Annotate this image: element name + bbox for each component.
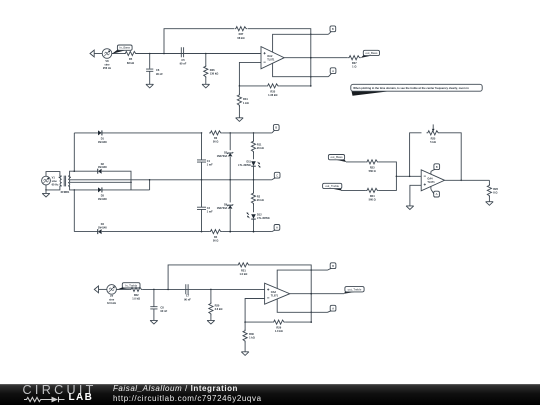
resistor R22 [130,287,143,300]
wire D1 row [74,132,98,134]
footer bar [0,384,540,405]
resistor R20 [209,289,223,320]
wire D4 to rail [102,231,209,233]
svg-text:56 Ω: 56 Ω [213,141,218,144]
svg-text:8.0 kHz: 8.0 kHz [107,301,117,305]
wire to R23 [346,161,366,163]
svg-text:1N4733A: 1N4733A [217,155,228,158]
svg-text:R36: R36 [210,68,215,72]
svg-text:R24: R24 [370,194,375,198]
zener diode D6 [217,180,233,233]
svg-text:68 kΩ: 68 kΩ [237,36,244,40]
wire R29 row [244,321,272,323]
svg-text:1.36 kΩ: 1.36 kΩ [268,93,277,97]
resistor R21 [237,263,250,276]
svg-text:1N4148: 1N4148 [98,227,107,230]
wire D1 to rail [102,132,202,134]
svg-text:1.0 kΩ: 1.0 kΩ [275,329,283,333]
CircuitLab logo LAB [69,394,94,402]
wire R29 to node [285,321,312,323]
svg-text:OA2: OA2 [267,55,273,58]
footer title [113,385,238,393]
resistor R37 [235,27,248,40]
svg-text:3.6 kΩ: 3.6 kΩ [215,307,223,311]
svg-text:60 Hz: 60 Hz [52,183,59,187]
capacitor C8 [150,289,167,320]
terminal A top ckt [328,68,336,77]
wire feedback top [164,29,234,54]
ground for C6 [146,84,154,88]
capacitor C1 [197,133,213,181]
svg-text:R21: R21 [241,268,246,272]
svg-text:26 kΩ: 26 kΩ [257,147,264,150]
svg-text:R37: R37 [239,32,244,36]
svg-text:R20: R20 [215,303,220,307]
svg-text:A: A [276,226,278,230]
resistor R23 [366,160,379,173]
svg-text:8 Ω: 8 Ω [493,190,497,194]
ground for R31 [236,118,244,122]
svg-text:256 Hz: 256 Hz [103,66,112,70]
junction to D4 [74,189,76,232]
wire OA4 plus to ground [410,185,421,206]
svg-text:V1: V1 [52,176,56,180]
svg-text:sine: sine [52,179,58,183]
diode D1 [98,130,107,144]
wire to R24 [341,189,366,191]
node out_Treble output flag [344,287,364,294]
wire R35 row [239,85,267,87]
svg-text:1N4148: 1N4148 [98,141,107,144]
wire center rail [70,179,272,181]
wire R23 to node [379,162,397,176]
voltage source V1 [42,176,59,187]
OA3 output wire [290,293,344,295]
svg-text:sine: sine [104,62,110,66]
wire D4 row [74,231,98,233]
terminal C mid [272,172,280,180]
zener diode D5 [217,133,233,181]
svg-text:OA4: OA4 [427,177,433,180]
terminal T1 input arrow [90,50,102,57]
wire R22 to opamp [143,289,265,291]
svg-text:1.0 kΩ: 1.0 kΩ [132,297,140,301]
resistor R27 [348,56,361,69]
svg-text:26 kΩ: 26 kΩ [257,199,264,202]
wire D3 row up to center rail [149,179,151,190]
resistor R31 [237,86,248,118]
op-amp OA2 [261,47,284,69]
svg-text:90 nF: 90 nF [180,62,187,66]
diode D2 [98,163,108,174]
OA2 power stub top [273,34,329,52]
wire OA2 minus input [239,62,261,86]
capacitor C7 [184,284,191,301]
svg-text:out_Treble: out_Treble [348,287,362,291]
svg-text:1 kΩ: 1 kΩ [249,336,255,340]
svg-text:1 Ω: 1 Ω [352,65,356,69]
svg-text:In_Bass: In_Bass [120,46,131,50]
svg-text:R23: R23 [370,165,375,169]
resistor R5 [124,51,137,64]
resistor R4 [209,230,222,243]
ground for V1 [42,193,50,197]
logo resistor-diode glyph [24,395,66,404]
svg-text:V8: V8 [105,59,109,63]
svg-text:1N4733A: 1N4733A [217,207,228,210]
resistor R35 [266,84,279,97]
wire winding B bottom down [70,186,98,190]
ground for R26 [486,202,494,206]
wire R3 right [222,132,272,134]
svg-text:B: B [275,126,277,130]
wire OA3 minus input [245,299,265,323]
footer url [113,395,262,403]
svg-text:TL071: TL071 [427,181,435,184]
terminal A OA4 [431,189,440,197]
svg-text:out_Treble: out_Treble [325,184,339,188]
svg-text:A: A [436,192,438,196]
OA2 output wire [284,57,348,59]
resistor R29 [272,320,285,333]
wire V1 bottom to xfmr [45,185,60,191]
svg-text:out_Bass: out_Bass [365,51,378,55]
svg-text:90 nF: 90 nF [156,72,163,76]
op-amp OA3 [265,283,290,304]
svg-text:90 nF: 90 nF [184,297,191,301]
note flag [351,84,482,96]
wire node to OA4 [396,176,421,178]
ground for R20 [207,320,215,324]
wire winding B top row [70,181,131,183]
terminal A mid [272,225,280,232]
node out_Bass input flag [328,155,346,163]
svg-text:V7: V7 [110,294,114,298]
wire R25 to output [440,133,463,181]
svg-text:1 mF: 1 mF [207,163,213,166]
svg-text:5 kΩ: 5 kΩ [430,140,436,144]
resistor R36 [204,54,219,85]
ground for C8 [150,320,158,324]
voltage source V7 [107,285,117,306]
svg-text:OA3: OA3 [271,291,277,294]
wire R35 to node [279,85,311,87]
svg-text:136 kΩ: 136 kΩ [210,72,219,76]
svg-text:R30: R30 [249,332,254,336]
wire V8 to R5 [112,53,124,55]
svg-text:sine: sine [109,298,115,302]
svg-text:TL071: TL071 [267,58,275,61]
svg-text:C8: C8 [160,306,164,310]
capacitor C6 [146,54,163,85]
wire feedback top bottom ckt [168,265,237,290]
svg-text:560 Ω: 560 Ω [369,169,376,173]
OA4 output wire [445,179,490,181]
wire D2 to right [102,171,132,190]
svg-text:68 kΩ: 68 kΩ [127,61,134,65]
terminal T2 input arrow [94,286,106,293]
resistor R11 [251,133,263,153]
svg-text:out_Bass: out_Bass [330,155,343,159]
node out_Bass output flag [361,50,380,58]
svg-text:90 nF: 90 nF [160,309,167,313]
capacitor C5 [180,47,187,65]
svg-text:When plotting in the time doma: When plotting in the time domain, to see… [353,86,469,90]
LED D12 [247,204,271,233]
LED D11 [238,152,260,181]
svg-text:1N4148: 1N4148 [98,166,107,169]
OA4 power stub top [430,171,432,174]
svg-text:C7: C7 [186,294,190,298]
svg-text:TL071: TL071 [271,294,279,297]
svg-text:R5: R5 [129,57,133,61]
svg-text:C5: C5 [181,58,185,62]
svg-text:XFMR1: XFMR1 [61,190,70,194]
svg-text:56 Ω: 56 Ω [213,239,218,242]
svg-text:A: A [332,306,334,310]
wire V7 to R22 [116,288,129,290]
wire R4 right [222,231,272,233]
svg-text:B: B [436,165,438,169]
diode D3 [98,187,107,201]
svg-text:C: C [276,173,278,177]
capacitor C2 [197,180,213,232]
OA2 power stub bottom [273,63,329,77]
wire V1 to ground [45,190,47,194]
svg-text:B: B [332,27,334,31]
terminal B mid [272,125,279,133]
svg-text:1.0 kΩ: 1.0 kΩ [239,272,247,276]
svg-text:1 kΩ: 1 kΩ [243,101,249,105]
svg-text:R29: R29 [276,326,281,330]
OA4 power stub bottom [430,186,432,189]
ground for OA4 plus [406,206,414,210]
OA3 power stub top [277,270,327,288]
ground for R30 [241,352,249,356]
wire V1 top to xfmr [46,172,60,177]
svg-text:LTL-307EE: LTL-307EE [238,164,251,167]
svg-text:1 mF: 1 mF [207,211,213,214]
svg-text:A: A [332,69,334,73]
svg-text:B: B [332,264,334,268]
resistor R2 [251,180,263,205]
wire secondary A+ up [70,171,75,176]
resistor R30 [243,322,255,352]
svg-text:R27: R27 [352,61,357,65]
svg-text:R26: R26 [493,187,498,191]
resistor R26 [487,180,498,201]
ground for R36 [202,84,210,88]
node In_Bass flag [112,45,132,54]
transformer XFMR1 [59,176,71,195]
op-amp OA4 [421,170,444,191]
svg-text:560 Ω: 560 Ω [369,197,376,201]
wire R37 to output node [248,29,312,86]
wire D3 to right [102,189,150,191]
svg-text:1N4148: 1N4148 [98,198,107,201]
OA3 power stub bottom [277,299,327,312]
terminal B bottom ckt [328,263,336,270]
diode D4 [98,223,108,234]
terminal B top [328,26,335,34]
resistor R3 [201,131,222,144]
svg-text:R35: R35 [270,89,275,93]
wire feedback up OA4 [410,133,422,177]
wire R21 to node [250,265,312,322]
wire D2 row [74,170,98,172]
wire to D1 row [74,133,76,172]
svg-text:LTL-307EE: LTL-307EE [257,217,270,220]
CircuitLab logo CIRCUIT [23,385,97,395]
voltage source V8 [102,49,112,70]
svg-text:C6: C6 [156,68,160,72]
terminal B OA4 [431,164,440,172]
node In_Treble flag [117,283,140,290]
svg-text:In_Treble: In_Treble [125,283,137,287]
potentiometer R25 [427,124,440,144]
svg-text:R25: R25 [431,136,436,140]
resistor R24 [366,188,379,201]
wire R5 to opamp plus input [137,53,261,55]
terminal A bottom ckt [328,305,336,312]
svg-text:R31: R31 [243,97,248,101]
svg-text:R22: R22 [134,293,139,297]
node out_Treble input flag [323,183,342,190]
wire R24 to node [379,176,398,191]
